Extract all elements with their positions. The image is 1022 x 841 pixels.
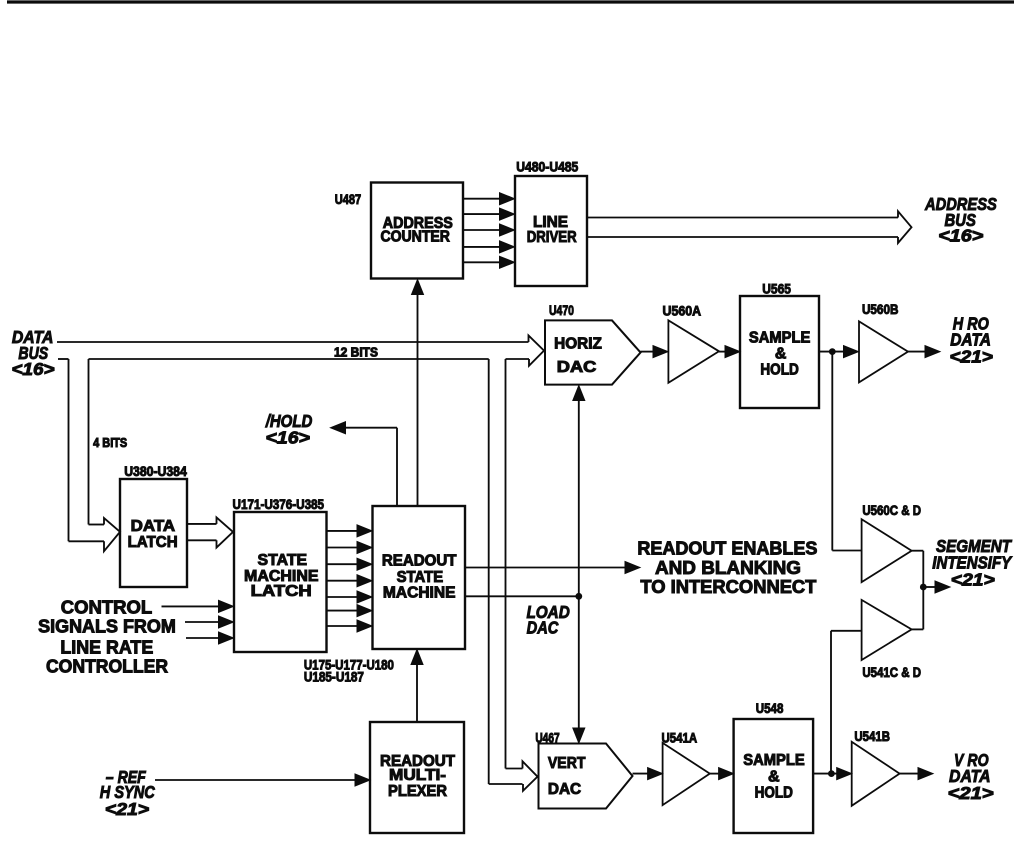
svg-text:READOUT ENABLES: READOUT ENABLES [637, 538, 817, 559]
svg-text:U480-U485: U480-U485 [516, 159, 578, 174]
svg-text:U565: U565 [762, 281, 791, 296]
svg-text:READOUT: READOUT [382, 553, 457, 570]
svg-text:COUNTER: COUNTER [380, 228, 450, 245]
svg-text:<21>: <21> [950, 346, 993, 366]
svg-text:DRIVER: DRIVER [527, 229, 577, 246]
svg-text:U470: U470 [549, 303, 574, 318]
svg-text:U560B: U560B [862, 302, 899, 317]
svg-text:U548: U548 [756, 701, 784, 716]
svg-text:DAC: DAC [557, 359, 597, 376]
svg-text:PLEXER: PLEXER [388, 783, 447, 800]
svg-text:<21>: <21> [105, 799, 149, 819]
svg-text:MACHINE: MACHINE [383, 584, 456, 601]
svg-text:&: & [768, 768, 780, 785]
svg-text:VERT: VERT [548, 755, 586, 772]
svg-text:U185-U187: U185-U187 [304, 669, 364, 684]
svg-text:LINE RATE: LINE RATE [60, 637, 153, 658]
svg-text:DAC: DAC [527, 618, 560, 638]
svg-text:HOLD: HOLD [760, 362, 798, 379]
svg-text:LATCH: LATCH [128, 534, 178, 551]
svg-text:U541A: U541A [662, 731, 698, 746]
svg-text:CONTROLLER: CONTROLLER [46, 656, 168, 677]
svg-text:<16>: <16> [938, 226, 983, 246]
svg-text:U487: U487 [335, 192, 361, 207]
svg-text:12 BITS: 12 BITS [334, 346, 378, 360]
svg-text:DAC: DAC [548, 781, 581, 798]
svg-text:U541B: U541B [854, 729, 890, 744]
svg-text:SAMPLE: SAMPLE [743, 752, 804, 769]
svg-text:LATCH: LATCH [251, 583, 312, 600]
svg-text:U541C & D: U541C & D [862, 665, 921, 680]
svg-text:DATA: DATA [131, 518, 176, 535]
svg-text:MULTI-: MULTI- [389, 767, 446, 784]
svg-text:AND BLANKING: AND BLANKING [655, 557, 801, 578]
svg-text:<21>: <21> [948, 783, 994, 803]
svg-text:4 BITS: 4 BITS [93, 436, 127, 450]
svg-text:U380-U384: U380-U384 [124, 464, 187, 479]
svg-text:U560C & D: U560C & D [862, 503, 921, 518]
svg-text:<16>: <16> [266, 428, 310, 448]
svg-text:<16>: <16> [12, 359, 55, 379]
svg-text:U467: U467 [535, 731, 559, 746]
svg-text:HOLD: HOLD [755, 784, 793, 801]
svg-text:U171-U376-U385: U171-U376-U385 [233, 497, 325, 512]
svg-text:STATE: STATE [258, 552, 308, 569]
svg-text:HORIZ: HORIZ [554, 336, 602, 353]
svg-text:SIGNALS FROM: SIGNALS FROM [38, 616, 176, 637]
svg-text:<21>: <21> [951, 569, 995, 589]
svg-text:CONTROL: CONTROL [61, 597, 152, 618]
svg-text:&: & [775, 346, 787, 363]
svg-text:U560A: U560A [663, 303, 702, 318]
svg-text:SAMPLE: SAMPLE [749, 330, 810, 347]
svg-text:TO INTERCONNECT: TO INTERCONNECT [640, 576, 817, 597]
